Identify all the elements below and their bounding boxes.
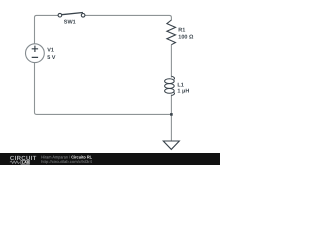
svg-text:V1: V1 — [47, 48, 54, 54]
svg-text:LAB: LAB — [22, 161, 30, 165]
footer logo LAB box — [21, 160, 30, 164]
footer bar — [0, 153, 220, 165]
svg-text:5 V: 5 V — [47, 55, 56, 61]
switch SW1 — [58, 13, 85, 18]
voltage source V1 — [26, 44, 45, 63]
svg-text:R1: R1 — [178, 27, 185, 33]
inductor L1 coil — [165, 76, 175, 95]
svg-text:http://circuitlab.com/c9d3r4: http://circuitlab.com/c9d3r4 — [41, 159, 93, 164]
wire: from R1 bottom down to L1 top — [170, 45, 172, 78]
wire: from V1 bottom down to bottom-left corner then right to junction — [35, 63, 171, 115]
svg-text:SW1: SW1 — [64, 20, 76, 26]
footer logo resistor zigzag — [10, 161, 20, 164]
wire: from L1 bottom down through junction to ground — [170, 95, 172, 141]
svg-text:100 Ω: 100 Ω — [178, 35, 194, 41]
node junction at bottom of L1 — [170, 113, 173, 116]
resistor R1 zigzag — [167, 20, 176, 45]
wire: from SW1 right terminal along top to top-right corner then down to R1 — [85, 15, 171, 20]
ground — [163, 141, 179, 149]
svg-text:1 μH: 1 μH — [177, 88, 189, 94]
wire: left rail from V1 top to top-left corner then to switch SW1 left terminal — [35, 15, 59, 44]
